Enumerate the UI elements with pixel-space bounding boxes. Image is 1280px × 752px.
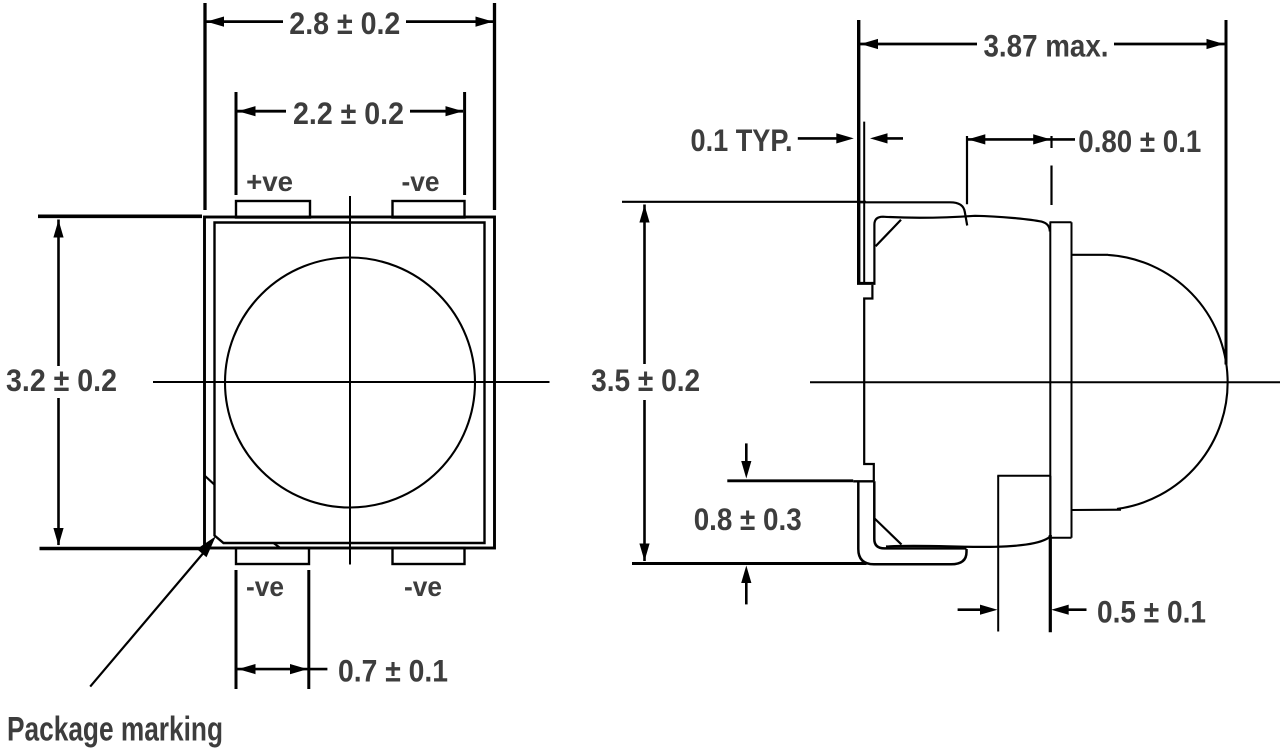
rear flange top outline [859,202,968,225]
dim 0.80 extension line left [966,136,968,204]
dim 2.2 extension line right [463,92,466,195]
rear lead inner line [863,122,865,284]
dim 0.7 extension line left [235,570,238,689]
dim 3.87 extension line right [1225,20,1228,365]
dim 0.80 extension line right lower [1050,166,1052,206]
svg-text:0.1 TYP.: 0.1 TYP. [691,122,793,158]
dim 2.2 extension line left [235,92,238,195]
leader arrowhead [197,536,216,557]
dim 3.87 extension line left / rear lead upper line [857,20,860,283]
centerline horizontal [153,381,550,383]
dim 2.8 extension line right [493,3,496,210]
chamfer tick on left edge [205,476,215,485]
front flange left edge [1049,222,1051,538]
top pad -ve [393,201,465,218]
svg-text:0.7 ± 0.1: 0.7 ± 0.1 [338,653,448,689]
dim 0.8 extension line upper [727,479,853,482]
package inner outline with chamfered corner [215,223,485,544]
dim 3.5 dimension line lower segment with arrow [639,400,649,561]
J-lead inner contour [874,481,966,548]
dim 3.2 extension line top [38,215,202,219]
front flange bottom step [1051,537,1072,539]
dome bottom edge [1072,509,1122,511]
J-lead outer contour [858,481,966,564]
centerline vertical [349,196,351,565]
dim 3.5 dimension line upper segment with arrow [639,205,649,365]
dim 0.80 extension line right upper [1050,136,1052,148]
body left edge and top contour [874,216,1049,284]
lens circle [225,258,475,508]
dim 0.7 extension line right [307,570,310,689]
svg-text:-ve: -ve [246,571,284,602]
bottom pad -ve right [393,548,465,564]
bottom pad -ve left [236,548,309,564]
rear lead termination bar [857,282,876,285]
dim 0.8 top arrow [741,443,751,478]
bottom lead right edge upper [1049,476,1051,535]
svg-text:3.5 ± 0.2: 3.5 ± 0.2 [591,362,700,398]
dim 3.5 extension line top [622,201,866,203]
dim 0.1 left arrow [798,133,854,143]
svg-text:Package marking: Package marking [7,710,223,748]
svg-text:3.2 ± 0.2: 3.2 ± 0.2 [6,362,117,398]
svg-text:0.5 ± 0.1: 0.5 ± 0.1 [1097,593,1206,629]
front flange right edge [1071,222,1073,538]
dim 0.5 right arrow [1051,605,1086,615]
package outer outline [205,217,495,548]
body top-left bevel line [876,220,901,247]
svg-text:0.8 ± 0.3: 0.8 ± 0.3 [694,501,802,537]
dim 0.80 dimension line with arrows [967,134,1052,144]
dim 3.2 dimension line upper segment with arrow [53,220,63,367]
dim 0.5 left arrow [958,605,998,615]
dim 3.5 extension line bottom / seating plane [632,562,867,565]
svg-text:+ve: +ve [246,166,293,197]
dome top edge [1072,254,1109,256]
dim 0.1 right arrow [870,133,903,143]
dim 2.2 dimension line left segment with arrow [238,106,287,116]
body left profile notch [864,285,874,481]
leader line package marking [90,548,208,687]
bottom lead right edge lower / dim 0.5 extension right [1049,535,1052,632]
dim 0.7 dimension line with arrows [238,664,328,674]
J-lead bend diagonal [875,519,902,545]
dim 2.8 dimension line left segment with arrow [206,17,283,27]
svg-text:2.2 ± 0.2: 2.2 ± 0.2 [293,95,404,131]
dim 0.80 leader stub [1052,138,1076,141]
dim 0.8 bottom arrow [741,566,751,605]
dome arc [1108,255,1228,509]
svg-text:0.80 ± 0.1: 0.80 ± 0.1 [1078,123,1201,159]
chamfer tick on bottom edge [274,543,282,549]
dim 3.87 dimension line right segment with arrow [1114,39,1225,49]
dim 2.8 extension line left [203,3,206,210]
top pad +ve [236,201,310,218]
dim 2.2 dimension line right segment with arrow [410,106,463,116]
centerline horizontal right view [810,381,1280,383]
dim 3.2 dimension line lower segment with arrow [53,398,63,546]
body bottom contour [886,535,1050,547]
J-lead top bar [853,480,874,482]
dim 2.8 dimension line right segment with arrow [406,17,494,27]
svg-text:3.87 max.: 3.87 max. [984,28,1109,64]
svg-text:-ve: -ve [404,571,442,602]
dim 3.2 extension line bottom [40,547,201,551]
svg-text:-ve: -ve [402,166,440,197]
bottom lead top bar [997,475,1050,477]
dim 3.87 dimension line left segment with arrow [860,39,977,49]
bottom lead left edge / dim 0.5 extension left [997,476,999,632]
front flange top edge [1050,221,1072,223]
svg-text:2.8 ± 0.2: 2.8 ± 0.2 [289,5,400,41]
